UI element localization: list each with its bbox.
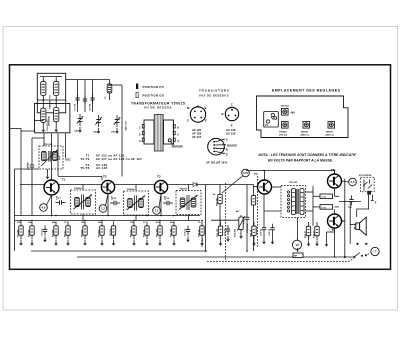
svg-text:B: B bbox=[205, 106, 207, 110]
svg-text:POSITION PO: POSITION PO bbox=[143, 85, 165, 89]
svg-text:TRANSISTORS: TRANSISTORS bbox=[199, 89, 230, 93]
svg-text:R20 1k: R20 1k bbox=[251, 229, 253, 237]
svg-text:R5 1k: R5 1k bbox=[65, 230, 67, 237]
svg-text:R23 47: R23 47 bbox=[304, 230, 307, 238]
svg-text:B: B bbox=[226, 148, 228, 152]
svg-text:1k: 1k bbox=[64, 222, 67, 224]
svg-text:C21 25: C21 25 bbox=[261, 228, 263, 236]
svg-text:EMPLACEMENT DES REGLAGES: EMPLACEMENT DES REGLAGES bbox=[272, 89, 341, 93]
svg-text:4: 4 bbox=[177, 139, 179, 143]
svg-text:T3: T3 bbox=[157, 175, 161, 179]
svg-text:CAO: CAO bbox=[74, 130, 79, 133]
svg-text:M: M bbox=[187, 106, 190, 110]
svg-text:VU DE DESSUS: VU DE DESSUS bbox=[144, 105, 172, 109]
svg-text:R14 1k: R14 1k bbox=[198, 229, 201, 237]
svg-text:T50027: T50027 bbox=[326, 131, 334, 133]
svg-text:C22 25: C22 25 bbox=[269, 228, 271, 236]
svg-text:T50025: T50025 bbox=[279, 131, 287, 133]
svg-text:1,2: 1,2 bbox=[101, 207, 105, 211]
svg-text:C17 25: C17 25 bbox=[225, 228, 227, 236]
svg-text:R18 470: R18 470 bbox=[234, 228, 237, 237]
svg-text:VOLUME: VOLUME bbox=[247, 223, 249, 233]
svg-text:L1: L1 bbox=[105, 96, 107, 99]
svg-text:6: 6 bbox=[177, 126, 179, 130]
svg-text:EN VOLTS PAR RAPPORT A LA MASS: EN VOLTS PAR RAPPORT A LA MASSE. bbox=[268, 159, 333, 163]
svg-text:5: 5 bbox=[177, 133, 179, 137]
svg-text:T1: T1 bbox=[62, 178, 66, 182]
svg-text:AC 132: AC 132 bbox=[96, 166, 108, 170]
svg-text:T2-T3: T2-T3 bbox=[80, 157, 89, 161]
svg-text:C2 180: C2 180 bbox=[90, 103, 92, 111]
svg-text:T50 663: T50 663 bbox=[281, 106, 290, 108]
svg-text:BP: BP bbox=[294, 256, 298, 258]
svg-text:R24 47: R24 47 bbox=[313, 230, 316, 238]
svg-text:C3 50n: C3 50n bbox=[42, 228, 44, 236]
svg-text:C: C bbox=[231, 103, 233, 107]
svg-text:C7: C7 bbox=[58, 198, 62, 200]
svg-text:POSITION GO: POSITION GO bbox=[143, 94, 165, 98]
svg-text:R6 10k: R6 10k bbox=[82, 229, 84, 237]
svg-text:C8 50n: C8 50n bbox=[110, 228, 112, 236]
svg-text:R12 2k2: R12 2k2 bbox=[171, 228, 173, 237]
svg-text:(455 kc): (455 kc) bbox=[301, 134, 309, 137]
svg-text:R10 1k: R10 1k bbox=[144, 229, 146, 237]
svg-text:E: E bbox=[226, 153, 228, 157]
svg-text:2: 2 bbox=[139, 133, 141, 137]
svg-text:1,2: 1,2 bbox=[155, 209, 159, 213]
svg-text:R7 5k6: R7 5k6 bbox=[99, 229, 101, 237]
svg-text:13: 13 bbox=[295, 243, 299, 247]
svg-text:R11 47k: R11 47k bbox=[156, 228, 159, 237]
svg-text:R1 220: R1 220 bbox=[18, 229, 20, 237]
svg-text:4,5: 4,5 bbox=[351, 180, 355, 184]
svg-text:4,5: 4,5 bbox=[42, 206, 46, 210]
svg-text:E: E bbox=[375, 202, 377, 205]
svg-text:0,75: 0,75 bbox=[243, 172, 248, 175]
svg-text:C: C bbox=[226, 138, 228, 142]
svg-text:R16 100: R16 100 bbox=[217, 228, 219, 237]
svg-text:MASSE: MASSE bbox=[227, 144, 237, 148]
svg-text:4k7: 4k7 bbox=[236, 210, 240, 213]
svg-text:C12: C12 bbox=[112, 198, 117, 200]
svg-text:C: C bbox=[187, 119, 189, 123]
svg-text:R9 10k: R9 10k bbox=[131, 229, 133, 237]
svg-text:T50026: T50026 bbox=[74, 188, 82, 190]
svg-text:5k: 5k bbox=[213, 194, 216, 196]
svg-text:T50026: T50026 bbox=[127, 189, 135, 191]
svg-text:AF 116 (AF 127): AF 116 (AF 127) bbox=[206, 161, 227, 165]
svg-text:1k: 1k bbox=[143, 222, 146, 224]
svg-text:AC 132: AC 132 bbox=[226, 131, 236, 135]
svg-text:VUS DE DESSOUS: VUS DE DESSOUS bbox=[199, 94, 229, 97]
svg-text:(455 kc): (455 kc) bbox=[326, 134, 334, 137]
svg-text:T50 025: T50 025 bbox=[289, 182, 298, 184]
svg-text:3: 3 bbox=[139, 139, 141, 143]
svg-text:GAMMES PO: GAMMES PO bbox=[49, 95, 52, 109]
svg-text:C19 25: C19 25 bbox=[244, 216, 246, 224]
svg-text:CV: CV bbox=[265, 125, 269, 127]
svg-text:OSC: OSC bbox=[65, 159, 71, 162]
svg-text:B: B bbox=[222, 112, 224, 116]
svg-text:I 7: I 7 bbox=[373, 250, 377, 254]
svg-text:C1 120: C1 120 bbox=[75, 103, 77, 111]
svg-text:REPERE: REPERE bbox=[172, 145, 184, 149]
svg-text:CAD 3-30: CAD 3-30 bbox=[125, 120, 128, 131]
svg-text:T50027: T50027 bbox=[180, 189, 188, 191]
svg-text:C18: C18 bbox=[165, 198, 170, 200]
svg-text:AF 127: AF 127 bbox=[192, 135, 202, 139]
svg-text:E: E bbox=[231, 123, 233, 127]
svg-text:E: E bbox=[205, 119, 207, 123]
svg-text:T5-T6: T5-T6 bbox=[80, 166, 89, 170]
svg-text:T50026: T50026 bbox=[301, 131, 309, 133]
svg-text:T2: T2 bbox=[103, 175, 107, 179]
svg-text:R25 4k7: R25 4k7 bbox=[216, 197, 219, 206]
svg-text:C15 10n: C15 10n bbox=[202, 238, 204, 247]
svg-text:1: 1 bbox=[139, 126, 141, 130]
svg-text:OSC: OSC bbox=[111, 132, 116, 134]
svg-text:AF 117 ou AF 126 ou AF 127: AF 117 ou AF 126 ou AF 127 bbox=[96, 157, 142, 161]
svg-text:464: 464 bbox=[291, 112, 296, 115]
svg-text:T4: T4 bbox=[254, 172, 258, 176]
svg-text:OSC: OSC bbox=[93, 132, 98, 134]
svg-text:1k: 1k bbox=[198, 222, 201, 224]
svg-text:R2 10k: R2 10k bbox=[29, 229, 31, 237]
svg-text:R4 39k: R4 39k bbox=[52, 229, 55, 237]
svg-text:C13 5n: C13 5n bbox=[185, 228, 187, 236]
svg-text:(774 kc): (774 kc) bbox=[279, 134, 287, 137]
svg-text:NOTA : LES TENSIONS SONT DONNE: NOTA : LES TENSIONS SONT DONNEES A TITRE… bbox=[259, 153, 358, 157]
